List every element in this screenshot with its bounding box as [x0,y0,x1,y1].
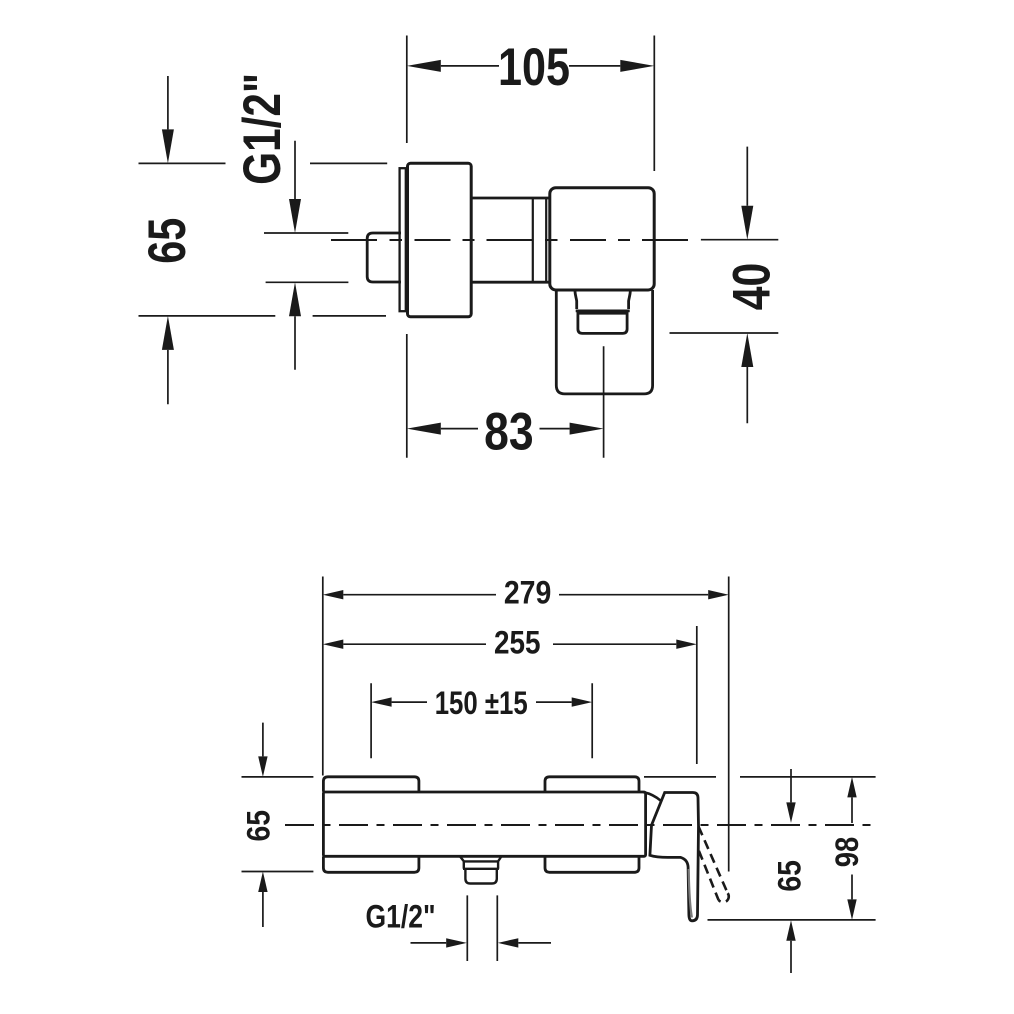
svg-text:83: 83 [484,403,534,462]
svg-text:150 ±15: 150 ±15 [435,685,528,721]
svg-text:255: 255 [494,625,541,661]
svg-text:105: 105 [498,38,570,97]
svg-text:G1/2": G1/2" [366,899,436,935]
svg-text:65: 65 [138,218,197,264]
svg-text:G1/2": G1/2" [233,73,292,185]
svg-text:40: 40 [723,263,782,311]
svg-text:65: 65 [772,860,808,892]
svg-text:98: 98 [829,837,865,868]
svg-text:65: 65 [241,810,277,842]
svg-text:279: 279 [504,574,552,610]
